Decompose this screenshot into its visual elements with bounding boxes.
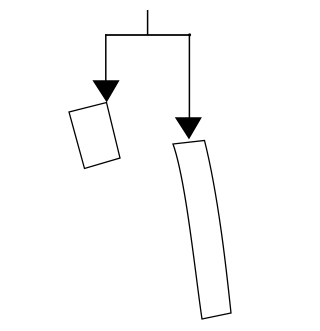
- wire: horizontal branch: [105, 34, 190, 36]
- wire: top vertical stub: [147, 10, 149, 36]
- junction dot: right corner: [188, 33, 191, 36]
- arrowhead: left: [92, 80, 119, 102]
- wire: right vertical drop: [188, 34, 190, 118]
- arrowhead: right: [175, 117, 202, 139]
- node: right curved tall bar: [173, 141, 231, 320]
- node: left rotated rectangle: [69, 103, 120, 169]
- wire: left vertical drop: [105, 34, 107, 81]
